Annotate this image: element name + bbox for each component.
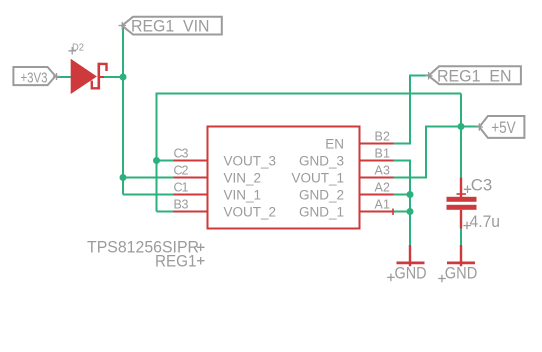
- wire node to pin C1: [123, 194, 174, 196]
- svg-text:VIN_1: VIN_1: [224, 188, 262, 203]
- svg-text:GND_3: GND_3: [299, 154, 344, 169]
- svg-text:REG1_EN: REG1_EN: [437, 66, 512, 85]
- wire net VOUT top horizontal: [157, 93, 462, 95]
- svg-text:+3V3: +3V3: [21, 70, 48, 87]
- wire pin A3 to +5V line: [393, 127, 426, 178]
- wire node to pin C2: [123, 177, 174, 179]
- supply flag +3V3: [13, 67, 60, 87]
- pin B3 stub: [174, 211, 208, 213]
- svg-text:B3: B3: [174, 198, 189, 212]
- pin A3 stub: [360, 177, 394, 179]
- svg-text:VOUT_1: VOUT_1: [291, 171, 344, 186]
- junction node +5V / capacitor: [458, 123, 465, 130]
- IC value label TPS81256SIPR: [87, 238, 205, 257]
- svg-text:D2: D2: [72, 43, 84, 54]
- pin B1 stub: [360, 160, 394, 162]
- junction node D2 / REG1_VIN: [120, 74, 127, 81]
- net label flag REG1_VIN: [119, 17, 222, 36]
- capacitor C3: [447, 178, 477, 229]
- svg-text:GND: GND: [395, 263, 427, 282]
- ground symbol left: [387, 245, 426, 282]
- junction node pin A1: [407, 208, 414, 215]
- wire GND net vertical from pin B1: [393, 161, 410, 246]
- junction node pin C2: [120, 174, 127, 181]
- pin B2 stub: [360, 143, 394, 145]
- wire D2 cathode to node: [100, 76, 124, 78]
- ground symbol right: [438, 245, 477, 282]
- svg-text:C1: C1: [174, 181, 189, 195]
- pin C2 stub: [174, 177, 208, 179]
- svg-text:4.7u: 4.7u: [470, 212, 501, 231]
- pin A1 connection cross: [392, 209, 394, 216]
- wire node to pin B3: [157, 211, 175, 213]
- svg-text:VOUT_3: VOUT_3: [224, 154, 277, 169]
- svg-text:GND: GND: [445, 263, 478, 282]
- label 4.7u: [463, 212, 500, 231]
- wire pin A2 to GND net: [393, 194, 410, 196]
- svg-text:VIN_2: VIN_2: [224, 171, 262, 186]
- svg-text:REG1_VIN: REG1_VIN: [131, 17, 210, 36]
- diode D2: [71, 59, 107, 94]
- svg-text:REG1: REG1: [155, 252, 197, 271]
- wire net REG1_VIN vertical: [122, 27, 124, 195]
- svg-text:VOUT_2: VOUT_2: [224, 205, 277, 220]
- pin A1 stub: [360, 211, 394, 213]
- wire pin B2 to REG1_EN flag: [393, 76, 429, 144]
- label D2: [69, 43, 85, 55]
- wire pin A1 to GND net: [393, 211, 410, 213]
- IC name label REG1: [155, 252, 205, 271]
- op-amp / IC REG1 body: [208, 127, 360, 229]
- svg-text:A3: A3: [375, 164, 391, 178]
- svg-text:B2: B2: [375, 130, 391, 144]
- wire net VOUT right vertical to capacitor: [460, 94, 462, 178]
- wire +5V horizontal: [425, 126, 480, 128]
- svg-text:GND_2: GND_2: [299, 188, 344, 203]
- svg-text:C3: C3: [174, 147, 189, 161]
- junction node pin A2: [407, 191, 414, 198]
- supply flag +5V: [476, 116, 525, 138]
- svg-text:EN: EN: [325, 137, 344, 152]
- svg-text:A1: A1: [375, 198, 391, 212]
- pin A2 stub: [360, 194, 394, 196]
- svg-text:A2: A2: [375, 181, 391, 195]
- svg-text:GND_1: GND_1: [299, 205, 344, 220]
- wire net VOUT vertical left: [156, 93, 158, 212]
- svg-text:B1: B1: [375, 147, 391, 161]
- pin C3 stub: [174, 160, 208, 162]
- wire +3V3 to D2 anode: [56, 76, 73, 78]
- junction node pin C3: [153, 157, 160, 164]
- pin C1 stub: [174, 194, 208, 196]
- wire capacitor C3 bottom to GND: [460, 228, 462, 246]
- label C3: [464, 176, 492, 195]
- svg-text:C2: C2: [174, 164, 189, 178]
- net label flag REG1_EN: [425, 66, 521, 85]
- svg-text:+5V: +5V: [491, 118, 516, 137]
- svg-text:C3: C3: [471, 176, 493, 195]
- wire node to pin C3: [157, 160, 175, 162]
